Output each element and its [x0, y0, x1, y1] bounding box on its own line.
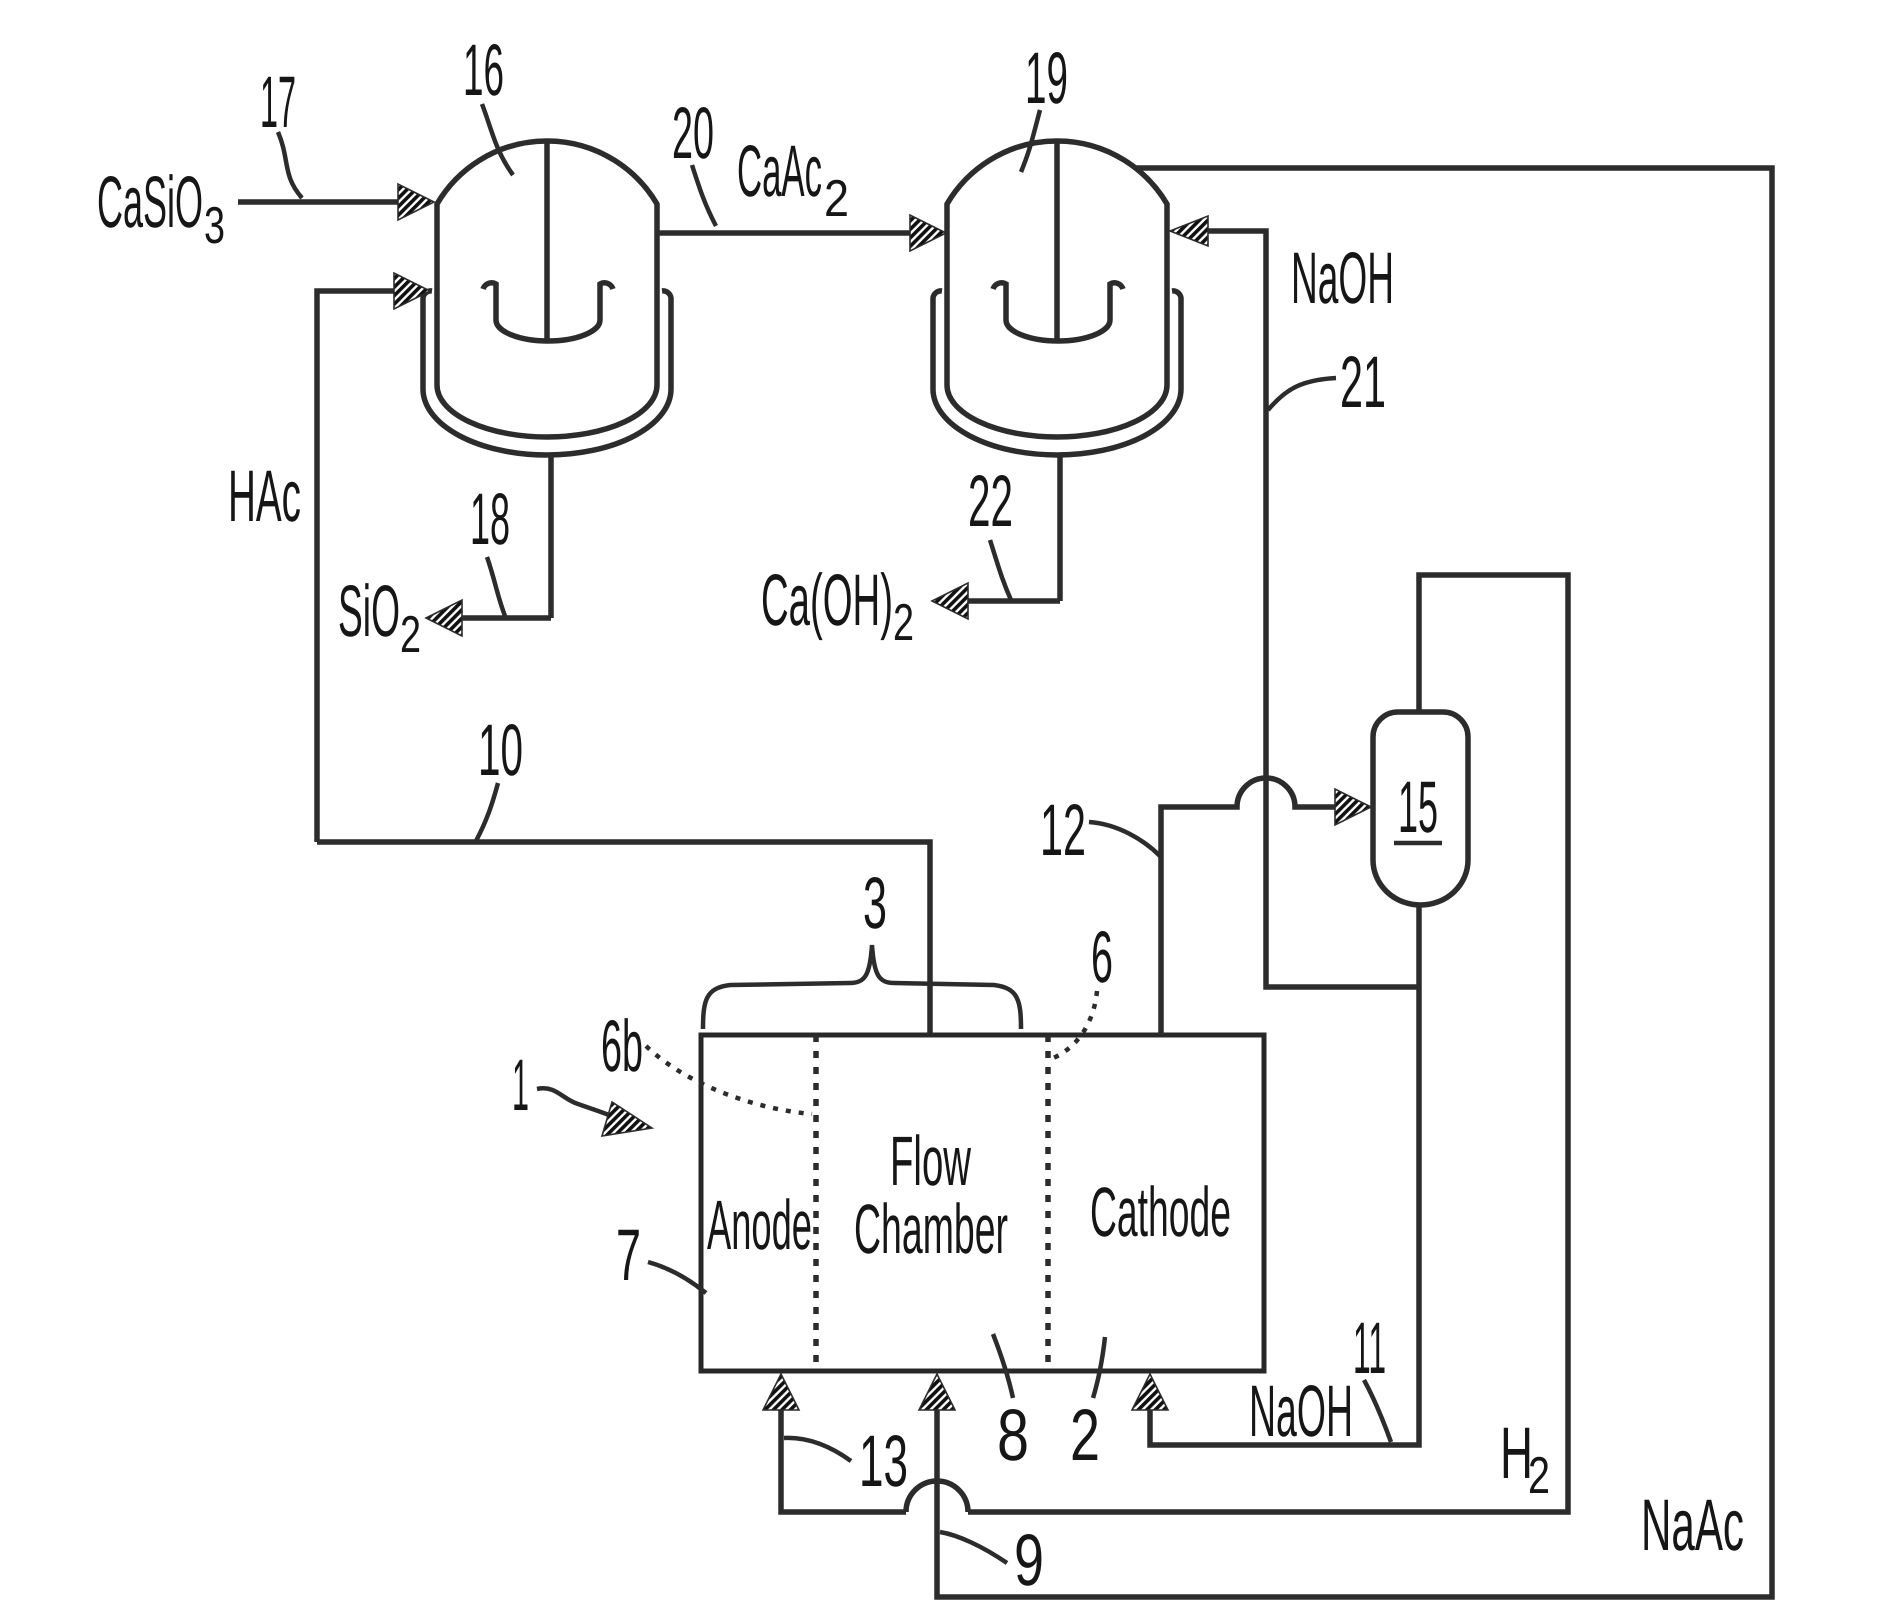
reactor vessel 19 body: [947, 141, 1167, 437]
svg-text:3: 3: [863, 863, 887, 944]
svg-text:CaSiO: CaSiO: [97, 162, 203, 243]
svg-text:2: 2: [400, 606, 421, 664]
reactor 16 bottom outlet stub: [548, 455, 554, 618]
wire NaAc loop: reactor 19 top to right side down to flow chamber bottom: [937, 168, 1772, 1597]
svg-text:19: 19: [1025, 38, 1068, 119]
svg-text:20: 20: [672, 93, 714, 174]
leader 10: [476, 783, 498, 841]
arrowhead NaOH into cathode bottom: [1132, 1374, 1168, 1410]
svg-text:NaAc: NaAc: [1641, 1485, 1744, 1566]
svg-text:Chamber: Chamber: [854, 1190, 1008, 1268]
membrane 6 dashed divider flow/cathode: [1045, 1035, 1051, 1371]
separator 15 liquid outlet down: [1150, 905, 1419, 1445]
leader 11: [1364, 1380, 1391, 1442]
svg-text:6b: 6b: [601, 1006, 643, 1087]
svg-text:HAc: HAc: [228, 456, 301, 537]
leader 12: [1089, 822, 1160, 856]
svg-text:2: 2: [824, 170, 849, 228]
svg-text:2: 2: [1070, 1395, 1100, 1476]
svg-text:2: 2: [893, 594, 914, 652]
svg-text:NaOH: NaOH: [1249, 1371, 1353, 1452]
reactor 16 impeller: [483, 283, 613, 341]
membrane 6b dashed divider anode/flow: [813, 1035, 819, 1371]
svg-text:Flow: Flow: [890, 1122, 971, 1200]
leader 18: [487, 557, 505, 616]
reactor vessel 16 body: [437, 141, 657, 437]
arrowhead SiO2: [426, 600, 462, 636]
wire line 12 from cathode top to separator 15: [1161, 778, 1337, 1035]
arrowhead Ca(OH)2: [932, 583, 968, 619]
svg-text:12: 12: [1040, 790, 1086, 871]
leader 20: [692, 165, 716, 226]
svg-text:3: 3: [204, 197, 225, 255]
svg-text:1: 1: [512, 1045, 529, 1126]
reactor 19 impeller: [993, 283, 1123, 341]
svg-text:18: 18: [470, 479, 510, 560]
svg-text:22: 22: [968, 461, 1013, 542]
leader 2: [1093, 1337, 1105, 1398]
reactor 19 bottom outlet stub: [1057, 455, 1063, 601]
arrowhead CaAc2 into reactor 19: [910, 215, 946, 251]
svg-text:10: 10: [478, 710, 523, 791]
svg-text:8: 8: [997, 1395, 1029, 1476]
arrowhead NaOH into reactor 19: [1170, 216, 1208, 246]
svg-text:16: 16: [463, 30, 504, 111]
brace 3 over anode and flow chamber: [703, 945, 1021, 1029]
reactor 19 jacket: [933, 291, 1181, 455]
svg-text:6: 6: [1091, 917, 1113, 998]
leader 7: [648, 1262, 706, 1293]
wire HAc recycle into reactor 16: [317, 291, 396, 842]
leader 17: [278, 132, 302, 198]
electrochemical cell 1 box: [701, 1035, 1264, 1371]
svg-text:Cathode: Cathode: [1090, 1173, 1231, 1251]
svg-text:17: 17: [260, 62, 296, 143]
arrowhead HAc into reactor 16: [394, 273, 430, 309]
svg-text:CaAc: CaAc: [737, 131, 822, 212]
leader 19: [1021, 110, 1040, 172]
reactor 16 stirrer shaft: [544, 143, 550, 343]
wire H2 recycle to anode bottom: [781, 1406, 906, 1512]
wire Ca(OH)2 outlet line 22: [966, 598, 1060, 604]
svg-text:7: 7: [616, 1215, 641, 1296]
leader 6b dotted: [646, 1046, 812, 1114]
leader 16: [482, 104, 513, 175]
leader 21: [1268, 378, 1336, 410]
svg-text:Ca(OH): Ca(OH): [761, 560, 893, 641]
leader 13: [784, 1438, 851, 1461]
arrowhead H2 into anode bottom: [763, 1374, 799, 1410]
leader 9: [940, 1532, 1007, 1563]
svg-text:21: 21: [1340, 342, 1386, 423]
svg-text:9: 9: [1014, 1520, 1044, 1601]
separator vessel 15: [1373, 712, 1468, 905]
arrowhead CaSiO3 into reactor 16: [398, 184, 434, 220]
svg-text:SiO: SiO: [338, 571, 400, 652]
separator 15 gas outlet to H2 line: [968, 575, 1568, 1512]
reactor 16 jacket: [423, 291, 671, 455]
leader 6 dotted: [1051, 991, 1097, 1059]
leader 22: [990, 540, 1011, 600]
wire CaSiO3 feed line 17: [238, 199, 402, 205]
leader arrow 1: [537, 1088, 614, 1117]
reactor 19 stirrer shaft: [1054, 143, 1060, 343]
wire line 10 from flow chamber top to HAc line: [317, 842, 930, 1035]
svg-text:13: 13: [859, 1421, 908, 1502]
wire NaOH line 21 into reactor 19: [1204, 231, 1419, 987]
svg-text:NaOH: NaOH: [1291, 238, 1394, 319]
wire CaAc2 line 20 from reactor 16 to reactor 19: [657, 230, 912, 236]
arrowhead NaAc into flow chamber bottom: [919, 1374, 955, 1410]
svg-text:11: 11: [1353, 1308, 1386, 1389]
leader 8: [993, 1334, 1013, 1398]
wire H2 recycle hop over NaAc line: [906, 1481, 968, 1512]
svg-text:2: 2: [1528, 1447, 1550, 1505]
wire SiO2 outlet line 18: [460, 615, 551, 621]
arrowhead line 12 into separator 15: [1335, 789, 1371, 825]
svg-text:15: 15: [1398, 767, 1438, 848]
svg-text:Anode: Anode: [707, 1186, 812, 1264]
